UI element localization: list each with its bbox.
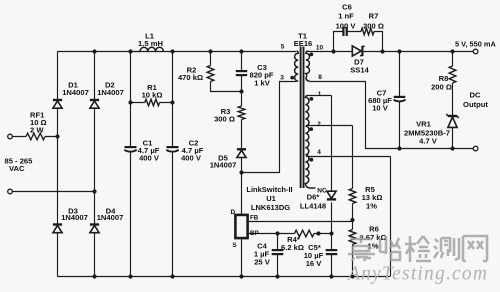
svg-text:1.5 mH: 1.5 mH: [138, 39, 163, 48]
svg-text:BP: BP: [250, 230, 259, 237]
svg-text:1N4007: 1N4007: [97, 88, 124, 97]
svg-text:5 V, 550 mA: 5 V, 550 mA: [455, 40, 496, 49]
svg-text:AnyTesting.com: AnyTesting.com: [346, 264, 488, 285]
svg-text:2 W: 2 W: [30, 126, 44, 135]
svg-text:10 kΩ: 10 kΩ: [142, 91, 163, 100]
svg-text:5: 5: [281, 44, 285, 51]
svg-text:1N4007: 1N4007: [62, 88, 89, 97]
svg-text:10: 10: [316, 45, 324, 52]
svg-text:VR1: VR1: [416, 120, 432, 129]
svg-text:U1: U1: [266, 194, 276, 203]
svg-text:6.2 kΩ: 6.2 kΩ: [281, 243, 304, 252]
svg-text:Output: Output: [463, 100, 488, 109]
svg-text:DC: DC: [470, 91, 481, 100]
svg-text:VAC: VAC: [9, 164, 25, 173]
svg-text:LNK613DG: LNK613DG: [251, 203, 290, 212]
svg-text:D: D: [230, 209, 235, 216]
svg-text:1%: 1%: [366, 202, 377, 211]
svg-text:400 V: 400 V: [181, 154, 202, 163]
svg-text:100 V: 100 V: [336, 22, 357, 31]
svg-text:D6*: D6*: [307, 193, 320, 202]
svg-text:1: 1: [318, 91, 322, 98]
svg-text:R7: R7: [369, 12, 379, 21]
svg-text:4: 4: [317, 149, 321, 156]
svg-text:1 kV: 1 kV: [254, 79, 271, 88]
svg-text:4.7 V: 4.7 V: [419, 137, 438, 146]
svg-text:LL4148: LL4148: [300, 202, 326, 211]
svg-text:200 Ω: 200 Ω: [431, 83, 452, 92]
svg-text:1 nF: 1 nF: [338, 12, 354, 21]
svg-text:1N4007: 1N4007: [97, 213, 124, 222]
svg-text:LinkSwitch-II: LinkSwitch-II: [246, 185, 292, 194]
svg-text:8: 8: [318, 74, 322, 81]
svg-text:200 Ω: 200 Ω: [363, 22, 384, 31]
svg-text:3: 3: [280, 75, 284, 82]
svg-text:16 V: 16 V: [306, 259, 323, 268]
svg-text:400 V: 400 V: [139, 154, 160, 163]
svg-text:1N4007: 1N4007: [210, 161, 237, 170]
svg-text:C6: C6: [342, 3, 352, 12]
svg-text:470 kΩ: 470 kΩ: [178, 73, 203, 82]
svg-text:SS14: SS14: [350, 66, 369, 75]
svg-text:EE16: EE16: [294, 39, 313, 48]
svg-text:25 V: 25 V: [254, 258, 271, 267]
svg-text:1N4007: 1N4007: [61, 213, 88, 222]
svg-text:10 V: 10 V: [372, 104, 389, 113]
svg-text:FB: FB: [250, 215, 259, 222]
svg-text:2: 2: [317, 121, 321, 128]
svg-text:S: S: [232, 242, 237, 249]
svg-text:300 Ω: 300 Ω: [214, 115, 235, 124]
